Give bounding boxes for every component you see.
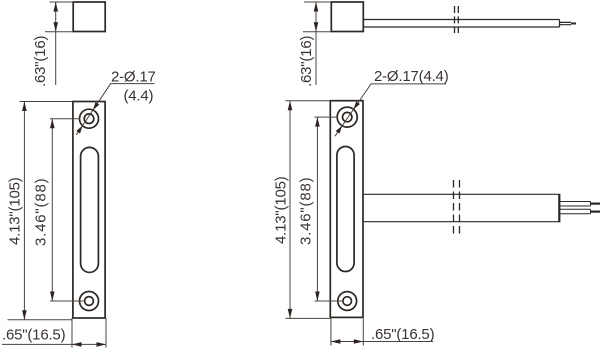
svg-text:2-Ø.17(4.4): 2-Ø.17(4.4): [374, 68, 449, 85]
svg-text:3.46"(88): 3.46"(88): [33, 178, 50, 246]
svg-text:3.46"(88): 3.46"(88): [298, 177, 315, 245]
svg-text:.65"(16.5): .65"(16.5): [2, 327, 66, 344]
svg-text:2-Ø.17: 2-Ø.17: [111, 69, 156, 86]
svg-text:4.13"(105): 4.13"(105): [273, 176, 290, 244]
svg-text:.65"(16.5): .65"(16.5): [371, 326, 435, 343]
svg-text:(4.4): (4.4): [124, 88, 154, 105]
svg-text:.63"(16): .63"(16): [32, 36, 49, 87]
svg-text:4.13"(105): 4.13"(105): [7, 177, 24, 245]
svg-text:.63"(16): .63"(16): [298, 36, 315, 87]
